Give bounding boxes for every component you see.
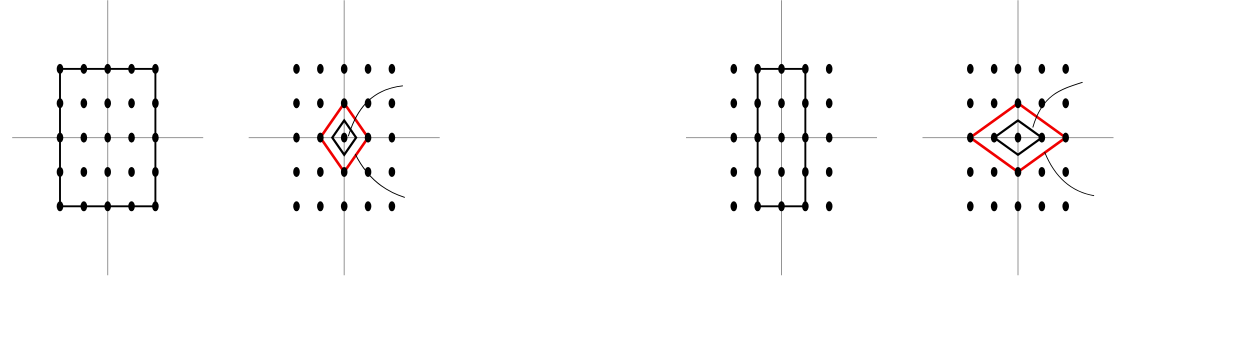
- panel3 lattice points 5x5 grid: [731, 64, 833, 211]
- panel3 horizontal axis: [686, 137, 877, 139]
- panel2 vertical axis: [343, 0, 345, 275]
- panel4 upper leader curve: [1033, 82, 1083, 127]
- panel3 polygon Q rectangle [-1,1]x[-2,2]: [758, 69, 806, 206]
- panel4 lower leader curve: [1045, 152, 1095, 196]
- panel2 red diamond vertices (±1,0),(0,±1): [320, 103, 368, 172]
- panel1 vertical axis: [107, 0, 109, 275]
- panel1 lattice points 5x5 grid: [57, 64, 159, 211]
- panel2 upper leader curve: [348, 86, 403, 137]
- panel4 black inner diamond vertices (±1,0),(0,±1/2): [994, 120, 1042, 154]
- panel4 lattice points 5x5 grid: [967, 64, 1069, 211]
- panel1 horizontal axis: [12, 137, 203, 139]
- panel4 red diamond vertices (±2,0),(0,±1): [970, 103, 1065, 172]
- panel1 polygon P rectangle [-2,2]x[-2,2]: [60, 69, 155, 206]
- panel4 horizontal axis: [923, 137, 1114, 139]
- panel2 black inner diamond vertices (±1/2,0),(0,±1/2): [332, 120, 356, 154]
- panel3 vertical axis: [781, 0, 783, 275]
- panel2 horizontal axis: [249, 137, 440, 139]
- panel2 lattice points 5x5 grid: [293, 64, 395, 211]
- panel4 vertical axis: [1017, 0, 1019, 275]
- panel2 lower leader curve: [355, 154, 405, 197]
